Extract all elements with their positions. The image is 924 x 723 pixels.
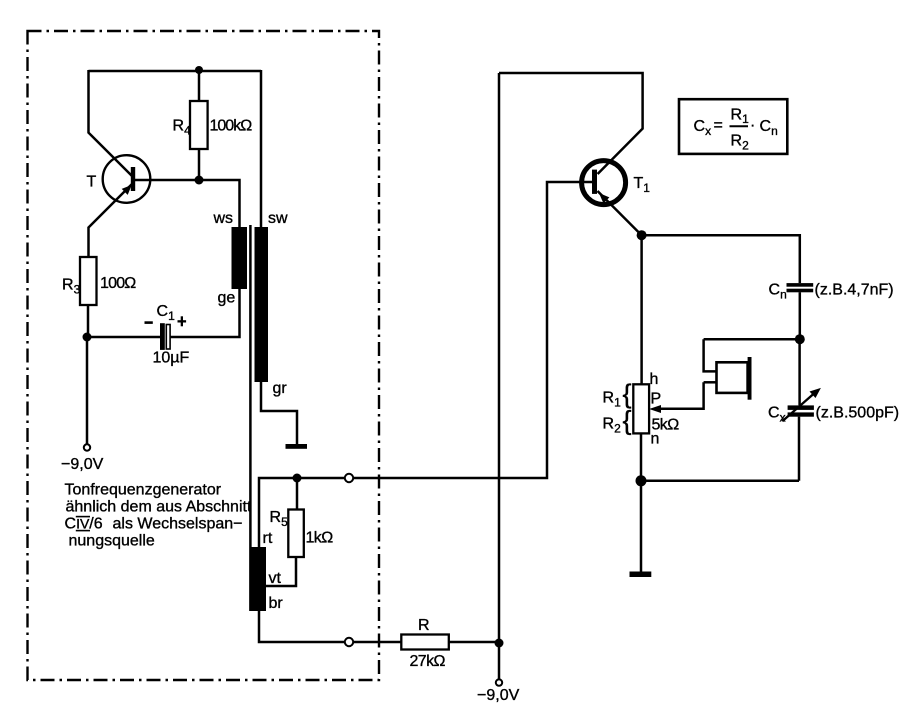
svg-text:{: {: [623, 379, 632, 409]
svg-text:100Ω: 100Ω: [100, 275, 136, 292]
svg-text:=: =: [714, 117, 723, 134]
svg-text:ws: ws: [213, 210, 234, 227]
svg-text:ähnlich dem aus Abschnitt: ähnlich dem aus Abschnitt: [66, 499, 252, 516]
svg-text:−9,0V: −9,0V: [477, 687, 520, 704]
svg-text:vt: vt: [269, 570, 282, 587]
svg-text:(z.B.4,7nF): (z.B.4,7nF): [815, 282, 894, 299]
svg-text:−9,0V: −9,0V: [61, 456, 104, 473]
svg-text:1kΩ: 1kΩ: [306, 530, 334, 547]
svg-text:Tonfrequenzgenerator: Tonfrequenzgenerator: [65, 482, 222, 499]
svg-text:gr: gr: [273, 380, 288, 397]
svg-text:sw: sw: [268, 210, 288, 227]
svg-text:CIV/6als Wechselspan−: CIV/6als Wechselspan−: [65, 516, 243, 533]
svg-text:nungsquelle: nungsquelle: [69, 533, 155, 550]
svg-text:br: br: [269, 595, 284, 612]
svg-text:10µF: 10µF: [153, 350, 190, 367]
svg-text:h: h: [650, 371, 659, 388]
svg-text:rt: rt: [263, 530, 273, 547]
svg-text:(z.B.500pF): (z.B.500pF): [816, 405, 900, 422]
svg-text:n: n: [651, 431, 660, 448]
svg-text:·: ·: [750, 117, 755, 134]
svg-text:27kΩ: 27kΩ: [410, 653, 446, 670]
svg-text:ge: ge: [218, 290, 236, 307]
svg-text:100kΩ: 100kΩ: [210, 118, 253, 135]
svg-text:T: T: [87, 174, 97, 191]
svg-text:{: {: [623, 406, 632, 436]
svg-text:P: P: [651, 391, 662, 408]
svg-text:R: R: [418, 617, 430, 634]
